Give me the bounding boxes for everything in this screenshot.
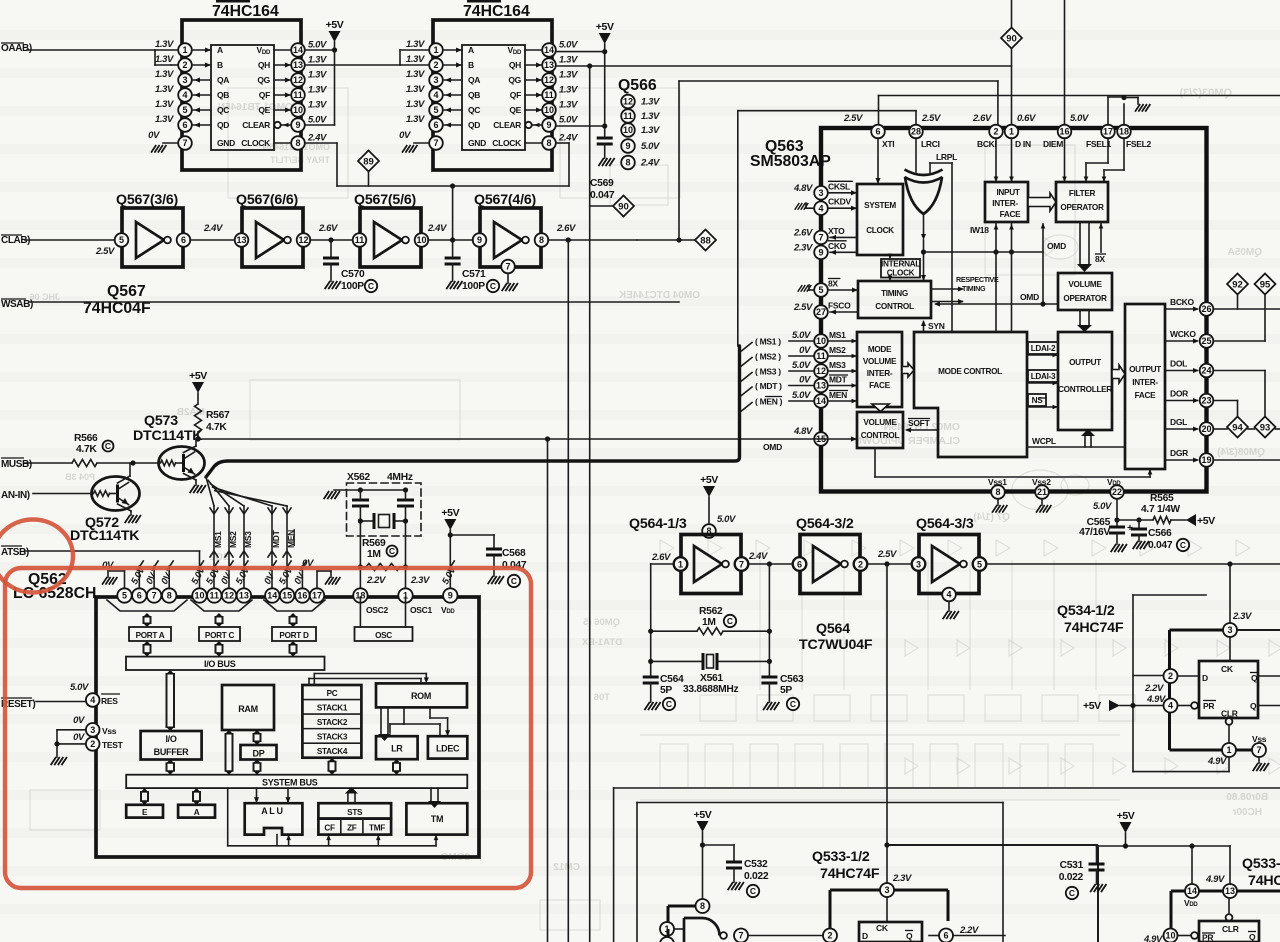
- svg-text:9: 9: [448, 591, 453, 601]
- resistor R567 4.7K with +5V: [189, 370, 230, 439]
- svg-text:( MS3 ): ( MS3 ): [755, 367, 781, 377]
- wire DIN pin1 vertical: [1009, 138, 1014, 332]
- wire LRCI feed: [738, 111, 916, 346]
- svg-text:1: 1: [1226, 745, 1231, 755]
- svg-text:4.9V: 4.9V: [1146, 694, 1166, 705]
- wire DIEM pin16 into FILTER OPERATOR: [1062, 138, 1067, 182]
- wire QH of IC1 to A,B of IC2: [305, 50, 429, 65]
- svg-text:90: 90: [1006, 33, 1017, 44]
- block SYSTEM CLOCK: [857, 184, 903, 255]
- svg-text:88: 88: [700, 235, 711, 246]
- block TIMING CONTROL: [858, 281, 931, 318]
- svg-text:OSC: OSC: [375, 631, 392, 640]
- flip-flop Q534 body: [1199, 637, 1258, 719]
- svg-text:5: 5: [119, 235, 124, 245]
- svg-text:ZF: ZF: [347, 824, 357, 833]
- svg-text:4.9V: 4.9V: [1207, 756, 1227, 767]
- svg-text:MODE: MODE: [868, 345, 892, 354]
- svg-text:2.5V: 2.5V: [95, 246, 115, 257]
- label Q533- 74HC (cut at edge): [1242, 856, 1280, 889]
- svg-text:22: 22: [1112, 487, 1122, 497]
- wire CKO out to pin9: [830, 250, 857, 255]
- svg-text:95: 95: [1260, 279, 1271, 290]
- svg-text:4: 4: [1168, 701, 1173, 711]
- wire SYN into TIMING CONTROL bottom: [921, 320, 945, 332]
- capacitor C563 5P: [761, 674, 804, 710]
- svg-text:XTO: XTO: [828, 226, 845, 236]
- svg-text:DTA1-EX: DTA1-EX: [581, 637, 622, 648]
- svg-text:C: C: [1180, 540, 1186, 550]
- svg-text:CKSL: CKSL: [828, 181, 850, 191]
- svg-text:VOLUME: VOLUME: [863, 418, 897, 427]
- wire SOFT into VOLUME CONTROL: [905, 418, 938, 433]
- svg-text:74HC74F: 74HC74F: [820, 866, 880, 882]
- svg-text:0V: 0V: [148, 130, 160, 141]
- svg-text:5.0V: 5.0V: [1070, 113, 1089, 124]
- svg-text:QB: QB: [217, 90, 229, 100]
- IC Q562 LC6528CH outer box: [13, 571, 479, 857]
- svg-text:OSC1: OSC1: [410, 605, 433, 615]
- svg-text:OM04 DTC144EK: OM04 DTC144EK: [618, 290, 700, 301]
- svg-text:+5V: +5V: [1083, 700, 1101, 712]
- svg-text:STACK4: STACK4: [317, 747, 348, 756]
- svg-text:Q534-1/2: Q534-1/2: [1057, 603, 1115, 619]
- svg-text:A: A: [468, 45, 474, 55]
- svg-text:2.5V: 2.5V: [793, 302, 813, 313]
- wire 1.3V labels IC2 inputs: [0, 0, 1, 1]
- labels MS1 MS2 MS3 MDT MEN (rotated): [213, 529, 296, 548]
- svg-text:10: 10: [623, 125, 633, 135]
- svg-text:B: B: [217, 60, 223, 70]
- svg-text:B: B: [468, 60, 474, 70]
- IC Q563 SM5803AP outer box: [750, 128, 1207, 492]
- power +5V with C531: [1059, 810, 1230, 899]
- svg-text:7: 7: [818, 233, 823, 243]
- svg-text:Q573: Q573: [144, 413, 178, 429]
- svg-text:4.7 1/4W: 4.7 1/4W: [1141, 504, 1180, 515]
- wire Q573 collector node (y439) to Q563 pin15: [195, 436, 814, 441]
- svg-text:2.5V: 2.5V: [877, 549, 897, 560]
- pin 3 Q534 (CK) with 2.3V: [1223, 611, 1280, 637]
- svg-text:1.3V: 1.3V: [308, 70, 327, 81]
- svg-text:C: C: [666, 699, 672, 709]
- svg-text:Q567(6/6): Q567(6/6): [236, 192, 299, 208]
- svg-text:93: 93: [1260, 422, 1271, 433]
- wires FSEL1 FSEL2 into FILTER OPERATOR: [1084, 138, 1124, 182]
- svg-text:QM08(3/4): QM08(3/4): [1217, 447, 1265, 458]
- wire OMD vertical from FILTER OPERATOR: [1040, 223, 1066, 307]
- svg-text:6: 6: [181, 235, 186, 245]
- connector 92 (diamond): [1227, 274, 1248, 295]
- svg-text:1: 1: [433, 45, 438, 55]
- svg-text:CLR: CLR: [1221, 709, 1238, 719]
- arrows SYSTEM BUS to ALU: [254, 788, 291, 803]
- svg-text:BCKO: BCKO: [1170, 297, 1195, 307]
- svg-text:4.9V: 4.9V: [1143, 934, 1163, 942]
- connector 90 (diamond, near C569): [590, 196, 634, 217]
- svg-text:C563: C563: [780, 674, 804, 685]
- svg-text:2.5V: 2.5V: [921, 113, 941, 124]
- svg-text:ATSB): ATSB): [1, 547, 29, 558]
- svg-text:12: 12: [293, 75, 303, 85]
- svg-text:CK: CK: [1221, 664, 1234, 674]
- connector MUSB: [1, 458, 32, 470]
- svg-text:33.8688MHz: 33.8688MHz: [683, 684, 739, 695]
- svg-text:92: 92: [1232, 279, 1243, 290]
- wire WCPL from MODE CONTROL to OUTPUT blocks: [1027, 429, 1125, 447]
- svg-text:13: 13: [816, 381, 826, 391]
- svg-text:IW18: IW18: [970, 225, 989, 235]
- svg-text:1: 1: [678, 559, 683, 569]
- svg-text:6: 6: [433, 120, 438, 130]
- svg-text:TIMING: TIMING: [962, 284, 986, 293]
- svg-text:7: 7: [739, 559, 744, 569]
- svg-text:QH: QH: [509, 60, 521, 70]
- svg-text:PORT C: PORT C: [205, 631, 235, 640]
- svg-text:0V: 0V: [799, 375, 811, 386]
- block MODE CONTROL: [914, 332, 1027, 457]
- connector ATSB: [1, 546, 200, 589]
- svg-text:LDEC: LDEC: [436, 744, 460, 754]
- svg-text:2: 2: [90, 739, 95, 749]
- svg-text:2.5V: 2.5V: [843, 113, 863, 124]
- pin 7 of Q567 with ground: [501, 260, 518, 291]
- wire XTI feed from right edge: [879, 96, 1280, 126]
- svg-text:8: 8: [995, 487, 1000, 497]
- svg-text:BCKI: BCKI: [977, 139, 997, 149]
- block TM: [406, 803, 467, 834]
- oscillator feedback left leg: [648, 564, 653, 677]
- pin 10 with PR bubble: [1143, 929, 1198, 942]
- svg-text:Q: Q: [1250, 701, 1257, 711]
- svg-text:6: 6: [182, 120, 187, 130]
- svg-text:STS: STS: [347, 808, 363, 817]
- wires LDAI-2 LDAI-3 NS with boxed labels: [1027, 342, 1058, 409]
- svg-text:INTER-: INTER-: [992, 199, 1018, 208]
- capacitor C564 5P: [643, 674, 684, 710]
- svg-text:+5V: +5V: [189, 370, 207, 382]
- Q534 outputs right: [1258, 676, 1280, 706]
- svg-text:AN-IN): AN-IN): [1, 490, 30, 501]
- svg-text:OMD: OMD: [763, 442, 782, 452]
- svg-text:5: 5: [433, 105, 438, 115]
- divider line y788 right half: [614, 788, 1280, 942]
- svg-text:C566: C566: [1148, 528, 1172, 539]
- svg-text:TM: TM: [431, 814, 443, 824]
- svg-text:QF: QF: [510, 90, 521, 100]
- wires pins10-14 into MODE VOLUME INTERFACE: [828, 339, 857, 404]
- ground bracket at pin5: [102, 560, 124, 589]
- capacitor C569 0.047: [590, 138, 615, 201]
- svg-text:27: 27: [816, 307, 826, 317]
- svg-text:Q533-1/2: Q533-1/2: [812, 849, 870, 865]
- svg-text:MA2B: MA2B: [177, 407, 205, 418]
- svg-text:QC: QC: [217, 105, 229, 115]
- svg-text:GND: GND: [217, 138, 235, 148]
- svg-text:DP: DP: [253, 749, 265, 759]
- block ROM: [376, 683, 467, 707]
- svg-text:17: 17: [1103, 127, 1113, 137]
- block I/O BUFFER: [141, 731, 202, 760]
- pin7 Vss with ground: [1236, 734, 1269, 771]
- svg-text:CK: CK: [876, 923, 889, 933]
- svg-text:WCPL: WCPL: [1032, 436, 1056, 446]
- Q563 top pins: [843, 113, 1151, 162]
- svg-text:2.6V: 2.6V: [972, 113, 992, 124]
- block OUTPUT CONTROLLER: [1058, 332, 1112, 430]
- svg-text:5P: 5P: [780, 685, 792, 696]
- pin 8 Q533 NAND: [668, 899, 710, 922]
- svg-text:7: 7: [505, 262, 510, 272]
- svg-text:PR: PR: [1203, 701, 1214, 711]
- block PORT A: [129, 627, 171, 641]
- wires OSC pins down: [360, 597, 405, 627]
- svg-text:11: 11: [293, 90, 303, 100]
- svg-text:14: 14: [816, 396, 826, 406]
- svg-text:Q567: Q567: [107, 283, 146, 300]
- svg-text:OAAB): OAAB): [1, 43, 32, 54]
- svg-text:LR: LR: [391, 744, 403, 754]
- svg-text:1M: 1M: [367, 549, 381, 560]
- svg-text:XTI: XTI: [882, 139, 894, 149]
- svg-text:CLEAR: CLEAR: [242, 120, 270, 130]
- IC Q566 (buffer pins 12-8): [618, 77, 660, 169]
- wire Q567 stage 1-2 (2.4V): [190, 223, 234, 240]
- svg-text:11: 11: [355, 235, 365, 245]
- svg-text:2.3V: 2.3V: [410, 575, 430, 586]
- svg-text:STACK1: STACK1: [317, 704, 348, 713]
- wire y252 cross link: [924, 249, 1044, 254]
- svg-text:1.3V: 1.3V: [155, 39, 174, 50]
- svg-text:TMF: TMF: [369, 824, 385, 833]
- svg-text:BUFFER: BUFFER: [154, 747, 189, 757]
- svg-text:2.2V: 2.2V: [959, 925, 979, 936]
- frame wires around Q534: [1133, 595, 1229, 772]
- block I/O BUS: [126, 657, 325, 670]
- crystal X562 4MHz network (dashed box): [324, 472, 421, 589]
- arrow MVI down to VOLUME CONTROL: [872, 404, 889, 412]
- svg-text:1: 1: [1009, 127, 1014, 137]
- svg-text:2: 2: [182, 60, 187, 70]
- arrows ROM to LR and LDEC: [378, 707, 450, 741]
- svg-text:A: A: [194, 808, 200, 817]
- svg-text:R565: R565: [1150, 493, 1174, 504]
- label Q533-1/2 74HC74F: [812, 849, 880, 882]
- svg-text:QM06 (5: QM06 (5: [582, 617, 620, 628]
- block INTERNAL CLOCK: [881, 259, 920, 278]
- svg-text:2.4V: 2.4V: [427, 223, 447, 234]
- svg-text:DGL: DGL: [1170, 417, 1187, 427]
- block DP: [241, 745, 277, 760]
- svg-text:Q: Q: [1249, 932, 1256, 942]
- svg-text:C569: C569: [590, 178, 614, 189]
- svg-text:MS2: MS2: [228, 531, 238, 548]
- svg-text:Q564-1/3: Q564-1/3: [629, 516, 687, 532]
- svg-text:1.3V: 1.3V: [155, 99, 174, 110]
- red circle around ATSB: [0, 520, 73, 593]
- svg-text:DIEM: DIEM: [1043, 139, 1063, 149]
- svg-text:7: 7: [152, 591, 157, 601]
- svg-text:R566: R566: [74, 433, 98, 444]
- wire SYSTEM CLOCK to INTERNAL CLOCK to TIMING: [888, 254, 893, 282]
- power rail pin22 with R565 C565 C566: [1079, 493, 1215, 552]
- svg-text:5P: 5P: [660, 685, 672, 696]
- wire vertical x547: [547, 439, 549, 942]
- block OUTPUT INTERFACE: [1125, 304, 1165, 469]
- svg-text:4MHz: 4MHz: [387, 472, 413, 483]
- transistor Q572 DTC114TK: [70, 463, 141, 544]
- svg-text:2.6V: 2.6V: [793, 227, 813, 238]
- capacitor C570 100P: [323, 240, 377, 292]
- svg-text:12: 12: [224, 591, 234, 601]
- svg-text:Q564-3/3: Q564-3/3: [916, 516, 974, 532]
- svg-text:9: 9: [818, 248, 823, 258]
- wire between Q564-3/2 and -3/3 (2.5V): [867, 549, 911, 567]
- svg-text:5.0V: 5.0V: [792, 360, 811, 371]
- crystal X561 33.8688MHz: [651, 653, 770, 695]
- wire Q567 output (2.6V) to diamond 88 net: [548, 223, 637, 243]
- svg-text:LDAI-2: LDAI-2: [1031, 344, 1056, 353]
- svg-text:8: 8: [625, 158, 630, 168]
- wire VOLUME CONTROL bottom link to OUTPUT INTERFACE: [875, 448, 1152, 477]
- svg-text:9: 9: [295, 120, 300, 130]
- svg-text:7: 7: [1256, 745, 1261, 755]
- svg-text:12: 12: [623, 97, 633, 107]
- wire NAND out to FF D input: [748, 935, 823, 937]
- bracket pins 5-8: [107, 600, 187, 611]
- svg-text:74HC164: 74HC164: [463, 3, 530, 20]
- svg-text:15: 15: [282, 591, 292, 601]
- svg-text:Q564: Q564: [816, 621, 850, 637]
- svg-text:1.3V: 1.3V: [406, 84, 425, 95]
- svg-text:FACE: FACE: [1000, 210, 1021, 219]
- connector OAAB (data input): [1, 43, 178, 65]
- svg-text:DOR: DOR: [1170, 389, 1188, 399]
- svg-text:11: 11: [544, 90, 554, 100]
- svg-text:C: C: [490, 281, 496, 291]
- svg-text:8: 8: [546, 138, 551, 148]
- bracket pins 10-13: [191, 600, 252, 611]
- label Q564-3/2: [796, 516, 854, 532]
- svg-text:1M: 1M: [702, 617, 716, 628]
- svg-text:2.4V: 2.4V: [748, 551, 768, 562]
- block FILTER OPERATOR: [1056, 182, 1108, 222]
- power +5V rail for first 74HC164: [305, 19, 344, 125]
- svg-text:23: 23: [1201, 396, 1211, 406]
- svg-text:C: C: [790, 699, 796, 709]
- svg-text:20: 20: [1201, 424, 1211, 434]
- wire pin15 4.8V into VOLUME CONTROL: [814, 436, 857, 441]
- svg-text:CF: CF: [324, 824, 335, 833]
- svg-text:C564: C564: [660, 674, 684, 685]
- flip-flop Q533 body (partial): [859, 922, 1005, 942]
- IC Q565 74HC164 (first shift register): [148, 0, 327, 170]
- power +5V to Q564 pin8: [700, 474, 736, 538]
- svg-text:+5V: +5V: [1197, 515, 1215, 527]
- svg-text:2.4V: 2.4V: [558, 133, 578, 144]
- svg-text:8: 8: [539, 235, 544, 245]
- block PC STACK registers: [302, 685, 361, 758]
- svg-text:QG: QG: [508, 75, 521, 85]
- pins 14 13 VDD of Q533 second half: [1171, 846, 1280, 928]
- svg-text:0V: 0V: [73, 732, 85, 743]
- label Q534-1/2 74HC74F: [1057, 603, 1124, 636]
- svg-text:STACK2: STACK2: [317, 718, 348, 727]
- power +5V with C532: [694, 809, 769, 899]
- label OMD near pin 15 wire: [763, 442, 782, 452]
- svg-text:5.0V: 5.0V: [641, 141, 660, 152]
- resistor R562 1M: [651, 606, 770, 635]
- arrows I/O BUFFER to buses: [166, 670, 175, 775]
- block PORT C: [199, 627, 240, 641]
- thick wire pin3 to pin2 and pin1 loop: [1133, 630, 1223, 750]
- svg-text:1.3V: 1.3V: [559, 55, 578, 66]
- svg-text:6: 6: [797, 559, 802, 569]
- svg-text:3: 3: [884, 885, 889, 895]
- svg-text:CONTROL: CONTROL: [875, 302, 914, 311]
- svg-text:1.3V: 1.3V: [406, 99, 425, 110]
- wire pin5 8X into TIMING CONTROL: [828, 287, 858, 292]
- svg-text:90: 90: [618, 201, 629, 212]
- svg-text:14: 14: [267, 591, 277, 601]
- svg-text:X561: X561: [700, 673, 723, 684]
- svg-text:4.7K: 4.7K: [206, 422, 227, 433]
- svg-text:CLR: CLR: [1222, 924, 1239, 934]
- svg-text:OSC2: OSC2: [366, 605, 389, 615]
- svg-text:SYN: SYN: [928, 321, 945, 331]
- wires Vss/TEST to ground: [51, 730, 86, 765]
- svg-text:5: 5: [182, 105, 187, 115]
- svg-text:13: 13: [1225, 886, 1235, 896]
- wire Q567 stage 3-4 (2.4V) with C571 node: [427, 223, 473, 243]
- svg-text:MDT: MDT: [271, 529, 281, 548]
- svg-text:OPERATOR: OPERATOR: [1060, 203, 1104, 212]
- power +5V for Q562 VDD: [441, 507, 494, 589]
- svg-text:19: 19: [1201, 455, 1211, 465]
- arrows SYSTEM BUS to TM: [428, 788, 441, 808]
- svg-text:QC: QC: [468, 105, 480, 115]
- svg-text:MODE CONTROL: MODE CONTROL: [938, 367, 1002, 376]
- block MODE VOLUME INTERFACE: [857, 332, 902, 407]
- connector WSAB input: [1, 299, 679, 310]
- flip-flop Q533 second body (partial, CLR bubble): [1199, 898, 1259, 942]
- block PORT D: [272, 627, 316, 641]
- inverter Q564-3/3: [912, 535, 987, 594]
- svg-text:4.8V: 4.8V: [793, 183, 813, 194]
- block E register: [126, 805, 163, 818]
- svg-text:Q564-3/2: Q564-3/2: [796, 516, 854, 532]
- Q562 left pins RES Vss TEST: [70, 682, 124, 751]
- svg-text:PORT A: PORT A: [136, 631, 165, 640]
- svg-text:CKDV: CKDV: [828, 197, 852, 207]
- svg-text:SM5803AP: SM5803AP: [750, 153, 831, 170]
- svg-text:MS1: MS1: [829, 330, 846, 340]
- svg-text:10: 10: [293, 105, 303, 115]
- svg-text:5.0V: 5.0V: [559, 115, 578, 126]
- svg-text:9: 9: [477, 235, 482, 245]
- svg-text:TEST: TEST: [102, 740, 124, 750]
- svg-text:2: 2: [1168, 671, 1173, 681]
- svg-text:2: 2: [433, 60, 438, 70]
- svg-text:0V: 0V: [799, 345, 811, 356]
- svg-text:0V: 0V: [399, 130, 411, 141]
- svg-text:2.4V: 2.4V: [640, 158, 660, 169]
- svg-text:0.022: 0.022: [1059, 872, 1084, 883]
- svg-text:100P: 100P: [462, 281, 485, 292]
- svg-text:3: 3: [818, 188, 823, 198]
- labels OSC2 OSC1 VDD 2.2V 2.3V: [366, 575, 455, 615]
- svg-text:1.3V: 1.3V: [155, 54, 174, 65]
